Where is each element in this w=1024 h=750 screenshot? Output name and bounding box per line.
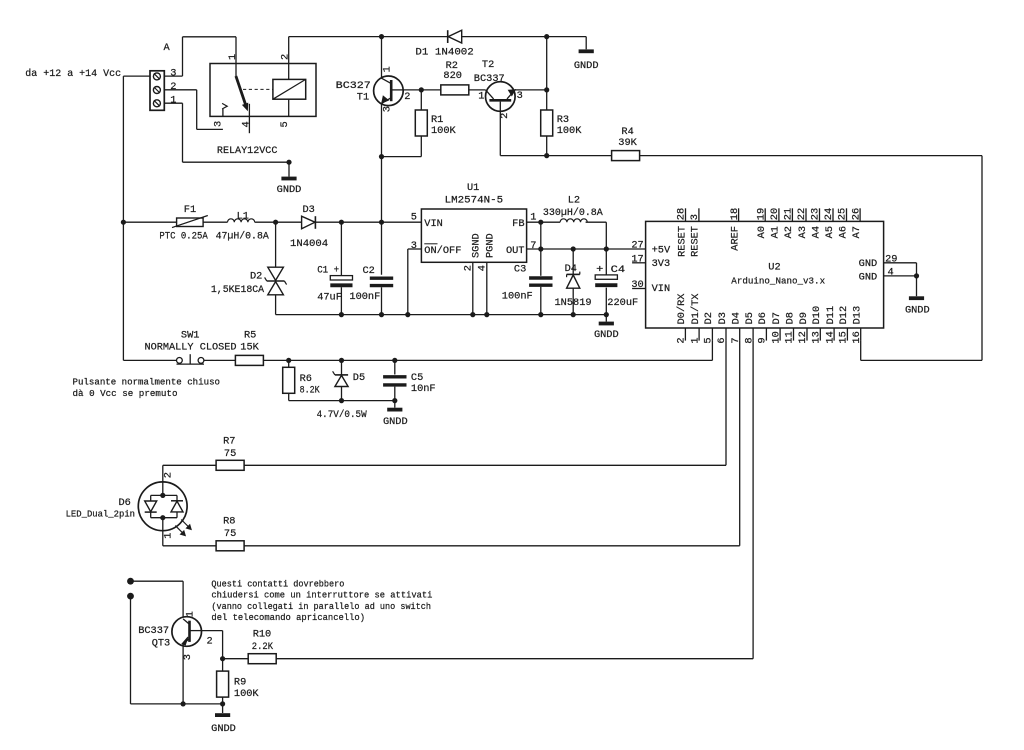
svg-text:2: 2: [207, 636, 213, 648]
svg-text:R6: R6: [300, 373, 312, 385]
wire R8 to D4: [244, 341, 740, 546]
svg-text:D2: D2: [250, 271, 262, 283]
diode D4 1N5819: [555, 249, 592, 315]
svg-text:C3: C3: [514, 264, 526, 276]
wire ground bus U1: [276, 314, 607, 316]
svg-text:27: 27: [631, 240, 643, 252]
junction ON/OFF ground: [405, 312, 410, 317]
svg-text:4: 4: [241, 121, 253, 127]
junction +12V / main bus: [121, 220, 126, 225]
svg-text:3: 3: [689, 214, 701, 220]
junction C3 tap: [538, 246, 543, 251]
svg-text:A4: A4: [810, 226, 822, 238]
ground GNDD relay: [277, 162, 302, 196]
wire R1 bottom stub: [420, 136, 422, 157]
svg-text:D1 1N4002: D1 1N4002: [415, 46, 473, 58]
svg-text:D4: D4: [731, 312, 743, 324]
wire LED pin1 to R8: [163, 518, 216, 546]
diode D1 1N4002: [415, 30, 473, 58]
note contatti: [211, 578, 432, 623]
svg-text:1,5KE18CA: 1,5KE18CA: [211, 284, 265, 296]
wire D1 anode to GNDD top right: [462, 37, 587, 50]
resistor R10 2.2K: [248, 629, 276, 664]
svg-text:da +12 a +14 Vcc: da +12 a +14 Vcc: [25, 68, 121, 80]
junction C1 tap: [339, 220, 344, 225]
svg-text:820: 820: [443, 70, 462, 82]
wire contact to ground bus: [131, 596, 223, 704]
svg-text:SGND: SGND: [470, 233, 482, 258]
svg-text:D2: D2: [703, 312, 715, 324]
wire T2 emitter to R3 column: [515, 89, 547, 91]
svg-text:D11: D11: [825, 306, 837, 325]
op-amp U1 LM2574N-5 box: [411, 182, 537, 271]
svg-text:2: 2: [279, 54, 291, 60]
svg-text:GNDD: GNDD: [905, 304, 930, 316]
svg-text:100nF: 100nF: [502, 291, 533, 303]
wire R7 to D3: [244, 341, 726, 466]
ground GNDD U2: [905, 298, 930, 316]
resistor R1 100K: [415, 110, 456, 137]
junction T1 emitter / R1 row: [379, 154, 384, 159]
svg-text:220uF: 220uF: [607, 297, 638, 309]
svg-text:D0/RX: D0/RX: [676, 293, 688, 324]
wire R1 row link: [382, 156, 422, 158]
svg-text:3: 3: [213, 121, 225, 127]
junction C5 tap: [392, 358, 397, 363]
svg-text:R10: R10: [253, 629, 272, 641]
transistor T2 BC337: [474, 59, 523, 119]
svg-text:VIN: VIN: [652, 283, 671, 295]
svg-text:T2: T2: [482, 59, 494, 71]
svg-text:BC337: BC337: [138, 625, 169, 637]
svg-text:PGND: PGND: [484, 233, 496, 258]
svg-text:L1: L1: [237, 210, 249, 222]
switch SW1 normally closed: [145, 330, 237, 364]
resistor R5 15K: [235, 330, 263, 366]
svg-text:RELAY12VCC: RELAY12VCC: [217, 145, 278, 157]
wire ground bus switch: [289, 400, 395, 402]
junction SGND: [470, 312, 475, 317]
svg-text:16: 16: [851, 331, 863, 343]
svg-text:7: 7: [530, 240, 536, 252]
svg-text:+5V: +5V: [652, 244, 671, 256]
svg-text:2.2K: 2.2K: [252, 641, 274, 653]
diode D5 zener: [317, 360, 368, 421]
wire T2 base to row: [500, 111, 611, 155]
node +12V input label: [25, 68, 121, 80]
svg-text:3: 3: [517, 90, 523, 102]
svg-text:NORMALLY CLOSED: NORMALLY CLOSED: [145, 342, 237, 354]
svg-text:1: 1: [478, 91, 484, 103]
wire R5 to D2: [263, 341, 712, 361]
svg-text:1N5819: 1N5819: [555, 297, 592, 309]
svg-text:D6: D6: [757, 312, 769, 324]
junction C3 ground: [538, 312, 543, 317]
svg-text:30: 30: [631, 279, 643, 291]
svg-text:GNDD: GNDD: [277, 184, 302, 196]
svg-text:A3: A3: [797, 226, 809, 238]
svg-text:A1: A1: [770, 226, 782, 238]
svg-text:Arduino_Nano_v3.x: Arduino_Nano_v3.x: [731, 275, 825, 286]
svg-text:LM2574N-5: LM2574N-5: [445, 194, 504, 206]
svg-text:D7: D7: [771, 312, 783, 324]
svg-text:QT3: QT3: [152, 637, 171, 649]
wire QT3 base to R10 row: [202, 631, 223, 659]
svg-text:FB: FB: [512, 218, 524, 230]
svg-text:7: 7: [730, 337, 742, 343]
svg-text:14: 14: [824, 331, 836, 343]
junction R9 ground: [220, 701, 225, 706]
svg-text:del telecomando apricancello): del telecomando apricancello): [211, 612, 365, 623]
svg-text:1: 1: [227, 54, 239, 60]
svg-text:SW1: SW1: [181, 330, 200, 342]
svg-text:2: 2: [499, 113, 511, 119]
svg-text:BC337: BC337: [474, 73, 505, 85]
svg-text:4: 4: [888, 266, 894, 278]
svg-text:R9: R9: [234, 676, 246, 688]
svg-text:OUT: OUT: [506, 245, 525, 257]
wire D3 to U1 VIN: [315, 221, 421, 223]
transistor T1 BC327: [336, 37, 411, 113]
wire base row to R10: [223, 658, 249, 660]
svg-text:(vanno collegati in parallelo: (vanno collegati in parallelo ad uno swi…: [211, 601, 431, 612]
svg-text:VIN: VIN: [424, 218, 443, 230]
svg-text:D4: D4: [565, 263, 577, 275]
capacitor C1 47uF: [317, 222, 352, 314]
node contact terminal top: [127, 578, 134, 585]
svg-text:D13: D13: [852, 306, 864, 325]
svg-text:A5: A5: [824, 226, 836, 238]
junction T1 collector on rail: [379, 34, 384, 39]
wire rail down to R3: [546, 37, 548, 110]
svg-text:C2: C2: [363, 265, 375, 277]
junction T2 emitter / R3: [544, 87, 549, 92]
svg-text:10: 10: [770, 331, 782, 343]
svg-text:9: 9: [757, 337, 769, 343]
ground GNDD QT3: [211, 704, 236, 735]
wire F1 to L1: [203, 221, 227, 223]
ground GNDD U1: [594, 315, 619, 341]
svg-text:D10: D10: [811, 306, 823, 325]
svg-text:28: 28: [676, 208, 688, 220]
svg-text:Pulsante normalmente chiuso: Pulsante normalmente chiuso: [73, 376, 221, 387]
svg-text:1: 1: [689, 337, 701, 343]
svg-text:R7: R7: [223, 436, 235, 448]
svg-text:C1 +: C1 +: [317, 264, 339, 276]
svg-text:R5: R5: [244, 330, 256, 342]
svg-text:21: 21: [783, 208, 795, 220]
wire T1 base node: [403, 89, 441, 91]
wire relay pin2 to rail / D1: [289, 37, 448, 64]
wire contact to QT3 collector: [131, 581, 184, 617]
resistor R3 100K: [541, 110, 583, 137]
svg-text:100K: 100K: [557, 125, 583, 137]
svg-text:25: 25: [837, 208, 849, 220]
svg-text:D6: D6: [119, 497, 131, 509]
wire conn pin2 to relay pin3: [164, 90, 223, 130]
resistor R7 75: [216, 436, 244, 471]
svg-text:2: 2: [170, 81, 176, 93]
svg-text:1: 1: [170, 95, 176, 107]
svg-text:RESET: RESET: [676, 226, 688, 257]
svg-text:U2: U2: [768, 262, 780, 274]
svg-text:AREF: AREF: [729, 226, 741, 251]
svg-text:5: 5: [411, 212, 417, 224]
wire +12V left vertical: [123, 76, 150, 360]
svg-text:chiudersi come un interruttore: chiudersi come un interruttore se attiva…: [211, 590, 432, 601]
svg-text:LED_Dual_2pin: LED_Dual_2pin: [66, 509, 135, 520]
svg-text:75: 75: [224, 448, 236, 460]
svg-text:GNDD: GNDD: [594, 329, 619, 341]
svg-text:GNDD: GNDD: [383, 416, 408, 428]
wire R10 to D5: [276, 341, 753, 659]
resistor R6 8.2K: [283, 360, 321, 400]
node contact terminal bottom: [127, 593, 134, 600]
wire main bus left segment: [123, 221, 176, 223]
svg-text:RESET: RESET: [690, 226, 702, 257]
svg-text:D8: D8: [784, 312, 796, 324]
wire L2 to +5V node: [586, 222, 607, 249]
svg-text:GND: GND: [859, 271, 878, 283]
op-amp U2 Arduino_Nano_v3.x: [631, 208, 897, 344]
svg-text:15: 15: [838, 331, 850, 343]
wire L1 to D3: [255, 221, 302, 223]
svg-text:A7: A7: [851, 226, 863, 238]
junction D5 ground: [339, 398, 344, 403]
svg-text:6: 6: [716, 337, 728, 343]
junction R3 / R4 row: [544, 153, 549, 158]
svg-text:5: 5: [703, 337, 715, 343]
svg-text:F1: F1: [184, 204, 196, 216]
svg-text:39K: 39K: [618, 137, 637, 149]
svg-text:19: 19: [755, 208, 767, 220]
junction R6 tap: [286, 358, 291, 363]
wire R3 bottom stub: [546, 136, 548, 156]
junction C4 ground: [604, 312, 609, 317]
svg-text:330µH/0.8A: 330µH/0.8A: [543, 207, 604, 219]
resistor R8 75: [216, 515, 244, 550]
junction D5 tap: [339, 358, 344, 363]
svg-text:A6: A6: [837, 226, 849, 238]
capacitor C2 100nF: [349, 265, 393, 315]
capacitor C5 10nF: [383, 360, 436, 400]
wire SW1 to R5: [204, 359, 236, 361]
junction D2 tap: [273, 220, 278, 225]
wire T1 emitter / C2 column: [381, 103, 383, 274]
fuse F1 PTC 0.25A: [159, 204, 208, 243]
relay RELAY12VCC: [210, 37, 316, 157]
wire QT3 emitter: [182, 644, 184, 704]
svg-text:17: 17: [631, 253, 643, 265]
resistor R9 100K: [217, 659, 260, 704]
junction T1 emitter / main bus: [379, 220, 384, 225]
wire switch row left: [123, 359, 176, 361]
svg-text:L2: L2: [568, 194, 580, 206]
wire conn pin1 to GNDD: [164, 103, 289, 162]
svg-text:1: 1: [184, 611, 196, 617]
svg-text:Questi contatti dovrebbero: Questi contatti dovrebbero: [211, 578, 344, 589]
svg-text:10nF: 10nF: [411, 383, 436, 395]
junction base/R9/R10: [220, 656, 225, 661]
svg-text:100K: 100K: [431, 125, 457, 137]
svg-text:12: 12: [797, 331, 809, 343]
svg-text:D9: D9: [798, 312, 810, 324]
wire OUT row: [527, 248, 646, 250]
junction C1 ground: [339, 312, 344, 317]
junction C2 ground: [379, 312, 384, 317]
svg-text:BC327: BC327: [336, 80, 371, 92]
junction T1 base / R1: [419, 87, 424, 92]
wire ON/OFF to ground: [408, 249, 422, 315]
svg-text:C5: C5: [411, 372, 423, 384]
junction FB link: [538, 220, 543, 225]
wire conn pin3 to relay pin1: [164, 37, 236, 76]
svg-text:20: 20: [769, 208, 781, 220]
svg-text:2: 2: [404, 91, 410, 103]
junction relay pin5 / ground: [286, 160, 291, 165]
transistor QT3 BC337: [138, 611, 212, 660]
wire LED pin2 to R7: [163, 465, 216, 495]
svg-text:26: 26: [850, 208, 862, 220]
inductor L2 330uH: [543, 194, 604, 222]
junction D4 tap: [571, 246, 576, 251]
svg-text:100nF: 100nF: [349, 291, 380, 303]
svg-text:A0: A0: [756, 226, 768, 238]
svg-text:dà 0 Vcc se premuto: dà 0 Vcc se premuto: [73, 388, 178, 399]
svg-text:47µH/0.8A: 47µH/0.8A: [216, 231, 270, 243]
junction C5 ground: [392, 398, 397, 403]
svg-text:ON/OFF: ON/OFF: [424, 245, 461, 257]
svg-text:1: 1: [381, 66, 393, 72]
svg-text:D3: D3: [303, 204, 315, 216]
svg-text:15K: 15K: [240, 342, 259, 354]
svg-text:3V3: 3V3: [652, 258, 671, 270]
svg-text:2: 2: [163, 472, 175, 478]
svg-text:4.7V/0.5W: 4.7V/0.5W: [317, 409, 368, 421]
ground GNDD switch: [383, 401, 408, 429]
svg-text:8: 8: [743, 337, 755, 343]
capacitor C4 220uF: [595, 249, 638, 315]
svg-text:3: 3: [381, 106, 393, 112]
junction C4 tap: [604, 246, 609, 251]
inductor L1 47uH: [216, 210, 270, 242]
svg-text:3: 3: [170, 67, 176, 79]
junction D4 ground: [571, 312, 576, 317]
wire SGND: [472, 262, 474, 314]
wire R4 to D13: [640, 156, 982, 361]
junction rail / T2 emitter branch: [544, 34, 549, 39]
svg-text:8.2K: 8.2K: [300, 384, 321, 396]
svg-text:D3: D3: [717, 312, 729, 324]
junction U2 GND: [914, 273, 919, 278]
svg-text:GNDD: GNDD: [211, 723, 236, 735]
svg-text:29: 29: [885, 253, 897, 265]
connector A (screw terminal): [150, 42, 176, 110]
svg-text:GND: GND: [859, 258, 878, 270]
svg-text:D1/TX: D1/TX: [690, 293, 702, 324]
svg-text:3: 3: [182, 654, 194, 660]
svg-text:D5: D5: [353, 372, 365, 384]
svg-text:T1: T1: [357, 92, 369, 104]
wire FB to L2: [527, 222, 561, 249]
resistor R4 39K: [612, 126, 640, 161]
svg-text:GNDD: GNDD: [574, 60, 599, 72]
svg-text:18: 18: [729, 208, 741, 220]
wire R2 to T2 collector: [469, 89, 486, 91]
led D6 LED_Dual_2pin: [66, 472, 192, 539]
svg-text:3: 3: [411, 240, 417, 252]
svg-text:A2: A2: [783, 226, 795, 238]
svg-text:A: A: [164, 42, 171, 54]
svg-text:U1: U1: [467, 182, 479, 194]
svg-text:5: 5: [279, 121, 291, 127]
diode D2 1.5KE18CA (TVS): [211, 222, 287, 314]
svg-text:PTC 0.25A: PTC 0.25A: [159, 231, 208, 243]
wire U2 GND pins: [884, 263, 917, 296]
svg-text:13: 13: [811, 331, 823, 343]
svg-text:+ C4: + C4: [596, 264, 625, 276]
svg-text:47uF: 47uF: [317, 292, 342, 304]
wire PGND: [486, 262, 488, 314]
svg-text:D12: D12: [838, 306, 850, 325]
svg-text:R8: R8: [223, 515, 235, 527]
note pulsante: [73, 376, 221, 399]
resistor R2 820: [441, 60, 469, 95]
svg-text:100K: 100K: [234, 688, 260, 700]
svg-text:22: 22: [796, 208, 808, 220]
svg-text:1: 1: [163, 533, 175, 539]
svg-text:23: 23: [810, 208, 822, 220]
capacitor C3 100nF: [502, 249, 553, 315]
wire R1 top stub: [420, 90, 422, 110]
svg-text:11: 11: [784, 331, 796, 343]
svg-text:D5: D5: [744, 312, 756, 324]
junction QT3 emitter ground: [181, 701, 186, 706]
diode D3 1N4004: [290, 204, 328, 250]
svg-text:1N4004: 1N4004: [290, 238, 328, 250]
junction PGND: [484, 312, 489, 317]
svg-text:2: 2: [676, 337, 688, 343]
svg-text:75: 75: [224, 528, 236, 540]
svg-text:24: 24: [823, 208, 835, 220]
ground GNDD top right: [574, 51, 599, 72]
